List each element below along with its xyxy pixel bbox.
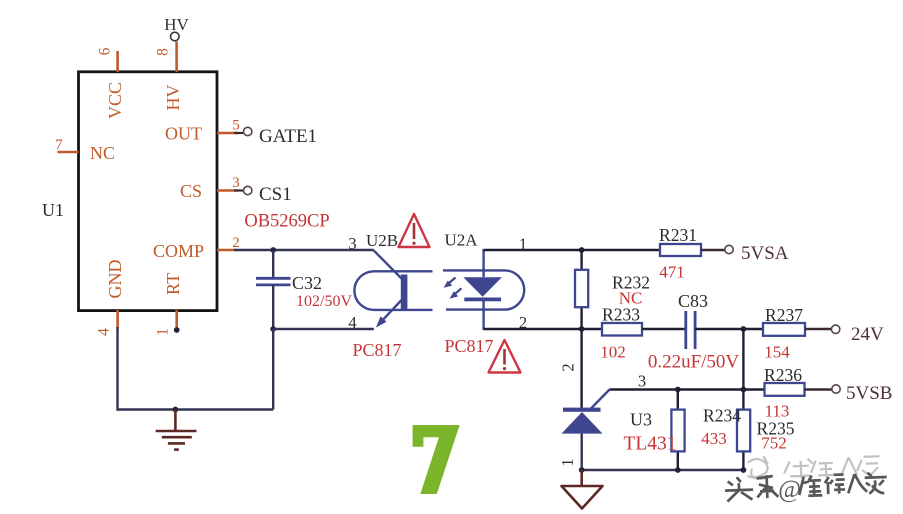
svg-text:COMP: COMP [153, 241, 204, 261]
pin 4 GND stub [116, 310, 119, 329]
svg-text:433: 433 [701, 429, 727, 448]
U2B collector diagonal [374, 251, 402, 280]
svg-text:5VSA: 5VSA [741, 243, 789, 264]
svg-text:R233: R233 [602, 305, 640, 325]
capacitor C83 [686, 311, 695, 349]
wire COMP net from pin 2 to U2B pin 3 [234, 249, 374, 251]
svg-text:4: 4 [95, 328, 112, 336]
node rail/R235 junction [741, 467, 747, 473]
wire U2B pin 4 net [273, 328, 374, 330]
resistor R237 body [763, 323, 805, 336]
svg-text:3: 3 [232, 175, 240, 191]
svg-text:U1: U1 [42, 200, 64, 220]
svg-text:U3: U3 [630, 410, 652, 430]
pin 6 VCC stub [116, 51, 119, 72]
node rail/U3 junction [579, 467, 585, 473]
svg-text:CS: CS [180, 181, 202, 201]
svg-text:GATE1: GATE1 [259, 126, 317, 147]
wire R236 to 5VSB terminal [805, 388, 833, 390]
node R232 bottom junction [579, 326, 585, 332]
svg-text:R234: R234 [703, 406, 741, 426]
svg-text:5VSB: 5VSB [846, 383, 892, 404]
wire R237 to 24V terminal [805, 328, 832, 330]
node R232 top junction [579, 247, 585, 253]
resistor R232 body [575, 270, 588, 307]
U2B base bar [401, 275, 408, 310]
svg-text:0.22uF/50V: 0.22uF/50V [648, 352, 740, 373]
svg-text:471: 471 [659, 263, 685, 282]
wire GND pin down [116, 327, 118, 411]
terminal CS1 circle [244, 186, 252, 194]
wire ground rail left [118, 408, 274, 410]
terminal 24V circle [831, 325, 839, 333]
wire U2A pin1 net to R231 [484, 249, 660, 251]
optocoupler U2B (PC817 transistor side) [354, 271, 432, 310]
U3 anode triangle [562, 412, 603, 434]
wire C83 to R237 [695, 328, 763, 330]
wire vertical from pin2 net down to ref net [742, 329, 744, 390]
terminal 5VSB circle [832, 385, 840, 393]
pin 5 OUT stub [217, 132, 238, 135]
svg-text:R237: R237 [765, 305, 803, 325]
page number 7 [413, 425, 460, 494]
U2A light arrow 2 [453, 288, 462, 296]
U2A LED triangle [463, 277, 502, 297]
pin 7 NC stub [58, 151, 79, 154]
svg-text:HV: HV [163, 85, 183, 111]
node R235 top junction [741, 387, 747, 393]
wire U2A pin2 net [484, 328, 602, 330]
ground symbol (triangle) [562, 470, 603, 509]
svg-text:24V: 24V [851, 324, 884, 345]
resistor R236 body [765, 383, 805, 396]
svg-text:U2A: U2A [444, 231, 478, 250]
svg-text:6: 6 [97, 47, 114, 55]
svg-text:OUT: OUT [165, 124, 202, 144]
svg-text:7: 7 [55, 137, 63, 153]
resistor R234 body [671, 410, 684, 452]
svg-text:NC: NC [90, 143, 115, 163]
svg-text:C83: C83 [678, 291, 708, 311]
junction ground rail [173, 407, 179, 413]
svg-text:OB5269CP: OB5269CP [244, 212, 329, 232]
watermark row 2 (dark) [725, 471, 888, 506]
warning triangle 1 [399, 214, 430, 247]
svg-text:1: 1 [558, 458, 577, 466]
pin 8 HV stub [175, 42, 178, 73]
svg-text:154: 154 [764, 343, 790, 362]
svg-text:@: @ [778, 476, 802, 504]
pin 2 COMP stub [217, 249, 236, 252]
resistor R232 leads [580, 250, 582, 270]
svg-text:1: 1 [155, 328, 172, 336]
terminal 5VSA circle [725, 245, 733, 253]
U3 anode lead down [581, 434, 583, 470]
pin 3 CS stub [217, 189, 238, 192]
svg-text:R231: R231 [659, 225, 697, 245]
wire bottom rail [582, 469, 744, 471]
svg-text:TL431: TL431 [623, 434, 676, 455]
svg-text:U2B: U2B [366, 231, 398, 250]
resistor R231 body [660, 244, 701, 256]
resistor R235 leads [742, 390, 744, 411]
wire down to ground rail [272, 329, 274, 410]
svg-text:GND: GND [105, 260, 125, 299]
U2A LED cathode bar [464, 298, 501, 302]
ground symbol (earth) [156, 410, 197, 450]
U3 ref diagonal [591, 390, 610, 409]
svg-text:CS1: CS1 [259, 184, 292, 205]
svg-text:VCC: VCC [105, 82, 125, 119]
svg-text:4: 4 [348, 313, 356, 332]
node B junction C32/pin4/ground [270, 326, 276, 332]
svg-text:752: 752 [761, 434, 787, 453]
svg-text:3: 3 [638, 372, 646, 391]
watermark row 1 (light) [747, 452, 881, 480]
svg-text:8: 8 [155, 48, 172, 56]
svg-text:2: 2 [232, 235, 240, 251]
svg-text:HV: HV [164, 15, 189, 34]
svg-text:113: 113 [765, 402, 790, 421]
pin 1 RT stub [175, 310, 178, 329]
svg-text:RT: RT [163, 273, 183, 295]
U2A cathode lead [482, 301, 484, 330]
wire ref net (pin 3 of U3) [610, 388, 766, 390]
junction dot at RT pin end [174, 327, 180, 333]
svg-text:2: 2 [559, 363, 578, 371]
wire C32 bottom lead to node B [272, 285, 274, 329]
op-amp U1 OB5269CP IC body [79, 72, 218, 311]
wire R233 to C83 [642, 328, 686, 330]
warning triangle 2 [489, 340, 521, 373]
terminal HV circle [171, 32, 180, 41]
svg-text:3: 3 [348, 234, 356, 253]
svg-text:C32: C32 [292, 273, 322, 293]
shunt regulator U3 TL431 cathode bar [563, 408, 601, 412]
optocoupler U2A (PC817 LED side) [443, 270, 524, 309]
svg-text:102/50V: 102/50V [296, 293, 352, 310]
svg-text:R236: R236 [764, 365, 802, 385]
U2A light arrow 1 [447, 278, 456, 286]
node vertical drop junction on pin2 net [741, 326, 747, 332]
node rail/R234 junction [675, 467, 681, 473]
U2B emitter diagonal with arrow [380, 300, 402, 324]
svg-text:PC817: PC817 [352, 340, 401, 360]
wire R231 to 5VSA terminal [701, 249, 725, 251]
resistor R235 body [737, 410, 750, 452]
wire C32 top lead [272, 250, 274, 278]
U2A anode lead [482, 249, 484, 277]
capacitor C32 [256, 278, 291, 285]
node COMP/C32 junction [270, 247, 276, 253]
resistor R234 leads [677, 390, 679, 411]
svg-text:102: 102 [600, 343, 626, 362]
wire TL431 cathode from pin2 net [580, 329, 582, 409]
svg-text:PC817: PC817 [444, 336, 493, 356]
resistor R233 body [602, 323, 642, 336]
node R234 top junction [675, 387, 681, 393]
terminal GATE1 circle [244, 127, 252, 135]
svg-text:5: 5 [232, 118, 240, 134]
